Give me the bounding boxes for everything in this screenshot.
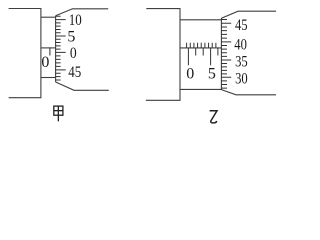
right sleeve half-mm ticks above datum bbox=[187, 43, 216, 48]
right thimble long ticks (45,40,35,30) bbox=[221, 23, 231, 77]
svg-text:5: 5 bbox=[208, 66, 216, 83]
left thimble edge bbox=[55, 16, 57, 82]
left micrometer frame bottom edge bbox=[9, 97, 41, 99]
svg-text:0: 0 bbox=[41, 54, 49, 71]
svg-text:0: 0 bbox=[70, 45, 77, 62]
left sleeve bottom edge bbox=[41, 77, 56, 79]
left sleeve top edge bbox=[41, 16, 56, 18]
caption jia (CJK) drawn as strokes bbox=[54, 106, 63, 121]
svg-text:40: 40 bbox=[234, 36, 247, 53]
caption yi (CJK) drawn as strokes bbox=[210, 111, 217, 123]
svg-text:30: 30 bbox=[235, 71, 248, 88]
svg-text:0: 0 bbox=[186, 66, 194, 83]
left thimble long ticks (10,5,0,45) bbox=[56, 20, 66, 70]
right micrometer frame top edge bbox=[146, 8, 180, 10]
svg-text:5: 5 bbox=[67, 28, 75, 45]
right micrometer frame vertical bbox=[179, 8, 181, 101]
left sleeve main-scale tick bbox=[49, 47, 51, 55]
svg-text:45: 45 bbox=[235, 17, 248, 34]
left thimble bottom outline bbox=[56, 82, 109, 90]
right thimble short ticks bbox=[221, 20, 227, 89]
right sleeve numbered mm ticks below datum bbox=[188, 48, 210, 65]
left thimble top outline bbox=[56, 9, 109, 16]
right sleeve bottom edge bbox=[180, 88, 221, 90]
svg-text:10: 10 bbox=[69, 12, 82, 29]
right sleeve top edge bbox=[180, 19, 221, 21]
left micrometer frame top edge bbox=[9, 8, 41, 10]
svg-text:45: 45 bbox=[68, 64, 81, 81]
left sleeve datum line bbox=[41, 47, 56, 49]
right micrometer frame bottom edge bbox=[146, 99, 180, 101]
right thimble top outline bbox=[221, 11, 276, 18]
svg-text:35: 35 bbox=[235, 54, 248, 71]
left micrometer frame vertical bbox=[40, 8, 42, 98]
left thimble short ticks bbox=[56, 16, 61, 80]
right thimble bottom outline bbox=[221, 90, 276, 95]
right thimble edge bbox=[220, 18, 222, 90]
right sleeve datum line bbox=[180, 47, 221, 49]
right sleeve mm ticks below datum bbox=[196, 48, 218, 56]
